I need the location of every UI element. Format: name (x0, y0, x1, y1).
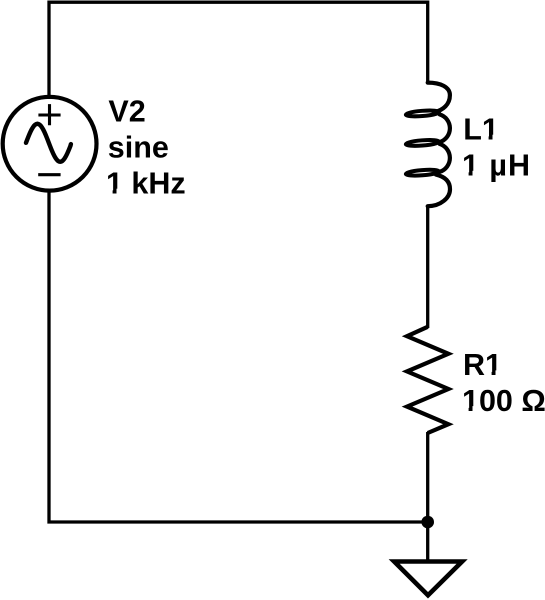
inductor L1 lead-in arc (428, 83, 450, 113)
svg-text:sine: sine (108, 130, 169, 164)
junction node dot (421, 516, 434, 529)
inductor L1 loop 1 (406, 110, 440, 118)
inductor L1 loop 3 (406, 169, 440, 177)
label 1 uH (462, 149, 530, 183)
label 1 kHz (106, 166, 186, 200)
voltage source plus sign (38, 104, 60, 125)
wire ground stub (426, 522, 429, 562)
wire bottom-left route (49, 189, 428, 522)
ground symbol triangle (394, 562, 462, 596)
resistor R1 zigzag (407, 327, 448, 433)
wire top route: left riser, top run, right drop (49, 2, 428, 99)
label R1 (463, 348, 502, 382)
voltage source minus sign (38, 173, 60, 176)
svg-text:L1: L1 (463, 112, 499, 146)
label 100 Ohm (462, 384, 545, 418)
svg-text:1 kHz: 1 kHz (106, 166, 186, 200)
svg-text:1 µH: 1 µH (462, 149, 530, 183)
svg-text:100 Ω: 100 Ω (462, 384, 545, 418)
label L1 (463, 112, 499, 146)
inductor L1 bulge 1 (440, 114, 450, 142)
inductor L1 lead-out arc (428, 175, 450, 207)
svg-text:R1: R1 (463, 348, 502, 382)
wire right lower (resistor to junction) (426, 432, 429, 522)
svg-text:V2: V2 (108, 94, 145, 128)
voltage source V2 circle (3, 97, 97, 191)
wire right middle (inductor to resistor) (426, 206, 429, 328)
inductor L1 loop 2 (406, 139, 440, 147)
inductor L1 bulge 2 (440, 144, 450, 172)
voltage source V2 sine waveform (26, 124, 71, 162)
